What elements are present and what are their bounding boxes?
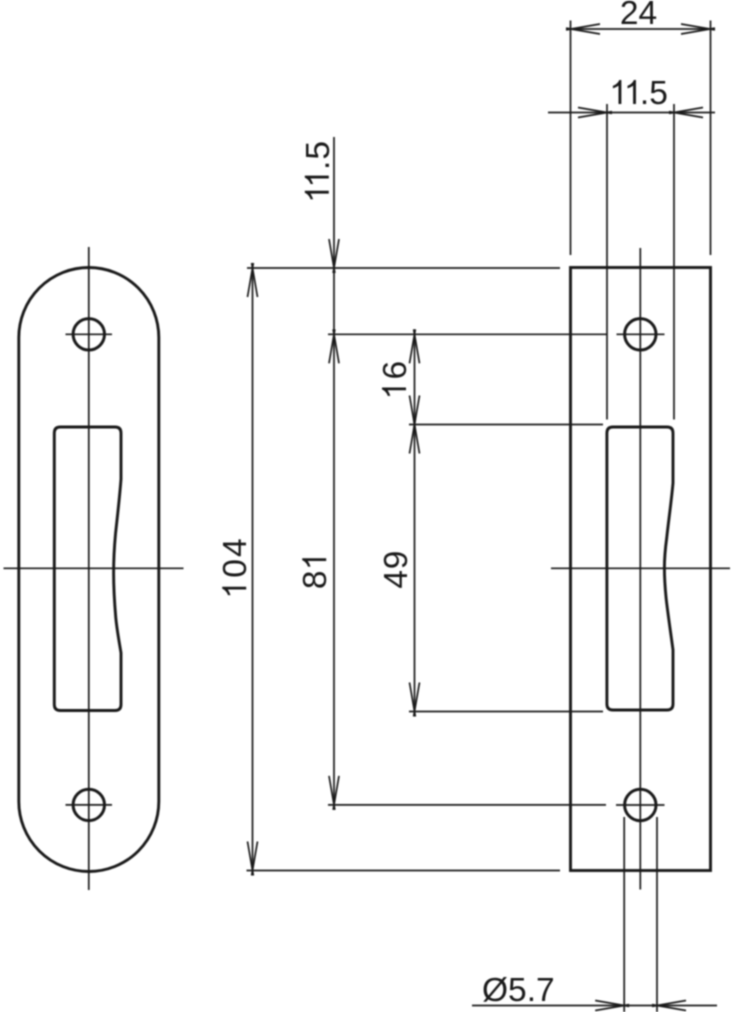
svg-text:6: 6 xyxy=(377,361,414,380)
dim 16/49: shared dimension line xyxy=(414,334,416,711)
dim diameter 5.7: right arrow pointing left xyxy=(652,1001,686,1011)
dim 11.5 top: left arrow pointing right xyxy=(578,108,612,118)
dim diameter 5.7: left arrow pointing right xyxy=(595,1001,629,1011)
dim 104: top arrow xyxy=(248,263,258,297)
extension line at plate bottom level y=870.5 xyxy=(247,870,561,872)
label 11.5 left (rotated) xyxy=(300,141,337,199)
dim 24: left arrow xyxy=(566,24,600,34)
right plate bottom hole xyxy=(625,789,656,820)
dim 11.5 top: right extension line xyxy=(673,104,675,420)
dim 81: top arrow pointing up xyxy=(329,329,339,363)
dim 49: top arrow pointing up xyxy=(410,420,420,454)
dim diameter 5.7: left tangent extension line xyxy=(623,817,625,1012)
dim 24: right arrow xyxy=(681,24,715,34)
svg-text:.5: .5 xyxy=(300,141,337,170)
dim 81: bottom arrow pointing down xyxy=(329,776,339,810)
right plate top hole xyxy=(625,319,656,350)
dim 24: dimension line xyxy=(571,28,710,30)
left plate slot with wavy right edge xyxy=(54,427,121,711)
right top hole crosshair xyxy=(617,333,665,335)
left top hole crosshair xyxy=(66,333,113,335)
dim 11.5 top: left extension line xyxy=(606,104,608,420)
right plate vertical centerline xyxy=(639,248,641,890)
svg-text:49: 49 xyxy=(378,551,415,589)
right plate horizontal centerline xyxy=(551,567,730,569)
left plate bottom hole xyxy=(73,789,104,820)
svg-text:24: 24 xyxy=(620,0,657,32)
left bottom hole crosshair xyxy=(66,804,113,806)
extension line at slot bottom level y=711.5 xyxy=(409,711,603,713)
dim 24: right extension line xyxy=(710,21,712,256)
label 81 (rotated) xyxy=(297,558,334,589)
left plate top hole xyxy=(73,319,104,350)
dim 24: left extension line xyxy=(570,21,572,256)
extension line at slot top level y=424.5 xyxy=(409,424,603,426)
dim diameter 5.7: dimension line xyxy=(472,1005,717,1007)
dim 104: bottom arrow xyxy=(248,842,258,876)
right plate slot with wavy right edge xyxy=(607,427,673,710)
dim 11.5 top: dimension line xyxy=(548,112,715,114)
left plate vertical centerline xyxy=(88,247,90,890)
svg-text:.5: .5 xyxy=(640,75,668,112)
extension line at top hole center level y=334 xyxy=(328,333,607,335)
svg-text:8: 8 xyxy=(297,570,334,589)
dim 11.5 left / 81: shared dimension line xyxy=(333,137,335,805)
dim 16: top arrow pointing up xyxy=(410,329,420,363)
label 16 (rotated) xyxy=(377,361,414,396)
dim diameter 5.7: right tangent extension line xyxy=(656,817,658,1012)
right bottom hole crosshair xyxy=(616,804,665,806)
dim 16: bottom arrow pointing down xyxy=(410,396,420,430)
right plate outline xyxy=(571,268,711,871)
svg-text:Ø5.7: Ø5.7 xyxy=(482,972,555,1009)
dim 49: bottom arrow pointing down xyxy=(410,683,420,717)
left plate horizontal centerline xyxy=(4,567,184,569)
dim 11.5 left: down arrow at plate top level xyxy=(329,239,339,273)
left plate outline (stadium shape) xyxy=(19,268,159,872)
dim 104: dimension line xyxy=(252,268,254,871)
label 11.5 top xyxy=(613,75,668,112)
dim 11.5 top: right arrow pointing left xyxy=(669,108,703,118)
label 104 (rotated) xyxy=(217,538,254,595)
extension line at plate top level y=268 xyxy=(247,267,560,269)
extension line at bottom hole center level y=805 xyxy=(328,804,606,806)
